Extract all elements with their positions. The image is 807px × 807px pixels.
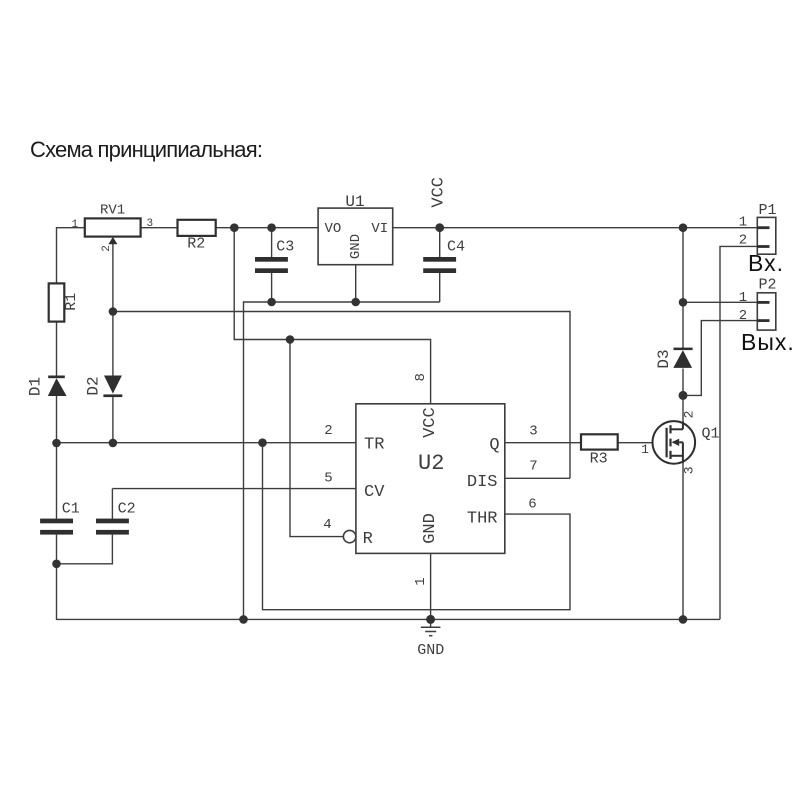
wire R1 bottom to D1 xyxy=(56,322,58,376)
node TR D2 xyxy=(109,439,118,448)
svg-text:P1: P1 xyxy=(759,202,777,219)
node wiper-DIS xyxy=(109,307,118,316)
wire VCC to D3 xyxy=(682,228,684,348)
svg-text:2: 2 xyxy=(324,423,332,439)
svg-text:P2: P2 xyxy=(759,276,777,293)
node C1 C2 bottom xyxy=(52,560,61,569)
wire U2 pin4 R loop xyxy=(290,340,343,537)
svg-text:1: 1 xyxy=(72,219,79,231)
svg-text:GND: GND xyxy=(348,234,364,259)
svg-text:C4: C4 xyxy=(447,239,465,256)
svg-text:GND: GND xyxy=(417,642,444,659)
node P2 pin1 xyxy=(679,298,688,307)
node C3 top xyxy=(267,223,276,232)
svg-text:D2: D2 xyxy=(85,376,103,395)
svg-text:R1: R1 xyxy=(63,293,80,311)
wire top rail left of RV1 xyxy=(57,228,85,284)
svg-text:1: 1 xyxy=(739,290,747,306)
node R2-right xyxy=(230,223,239,232)
node ground Q1 xyxy=(679,615,688,624)
svg-text:3: 3 xyxy=(147,218,154,230)
net label Вх. xyxy=(748,250,784,277)
U2 pin4 inversion bubble xyxy=(343,530,355,542)
svg-text:TR: TR xyxy=(364,436,384,455)
capacitor C1 xyxy=(40,519,73,535)
wire VCC branch down to U2 pin8 xyxy=(234,228,430,404)
node ground rail A xyxy=(239,615,248,624)
svg-text:5: 5 xyxy=(324,471,332,487)
svg-text:8: 8 xyxy=(413,373,429,381)
svg-text:C3: C3 xyxy=(276,239,294,256)
svg-text:CV: CV xyxy=(364,483,385,502)
svg-text:U2: U2 xyxy=(418,451,444,476)
svg-text:R: R xyxy=(363,530,373,549)
svg-text:VO: VO xyxy=(325,221,342,237)
wire gnd rail A xyxy=(244,302,440,619)
capacitor C2 xyxy=(96,519,129,535)
title xyxy=(30,137,262,163)
svg-text:4: 4 xyxy=(323,517,331,533)
diode D2 xyxy=(103,376,122,398)
svg-text:2: 2 xyxy=(682,411,697,419)
svg-text:2: 2 xyxy=(739,308,747,324)
regulator U1 xyxy=(318,208,393,265)
wire D2 bottom to TR node xyxy=(112,397,114,443)
wire C2 bottom link to C1 column xyxy=(57,535,113,564)
svg-text:Q1: Q1 xyxy=(702,426,720,443)
svg-text:1: 1 xyxy=(641,442,649,457)
wire U1 VI to P1 pin1 xyxy=(393,227,758,229)
svg-text:VCC: VCC xyxy=(429,177,448,208)
node TR THR branch xyxy=(258,438,267,447)
wire wiper node to DIS loop xyxy=(113,312,570,479)
resistor R2 xyxy=(178,220,216,236)
svg-text:6: 6 xyxy=(528,497,536,513)
svg-text:D3: D3 xyxy=(655,349,673,368)
net label Вых. xyxy=(741,329,795,356)
node C3 bottom xyxy=(267,298,276,307)
svg-text:VI: VI xyxy=(371,221,388,237)
node TR left xyxy=(52,439,61,448)
transistor Q1 xyxy=(653,421,696,464)
wire THR loop xyxy=(263,443,571,610)
wire C3 bottom xyxy=(271,273,273,302)
diode D3 xyxy=(673,348,692,368)
svg-text:Q: Q xyxy=(489,436,499,455)
wire RV1 wiper down to D2 xyxy=(112,243,114,376)
wire U2 pin1 to ground xyxy=(430,553,432,619)
wire R2 to U1 VO xyxy=(216,227,318,229)
svg-text:U1: U1 xyxy=(345,193,364,211)
diode D1 xyxy=(48,376,67,397)
svg-text:R3: R3 xyxy=(590,451,608,468)
wire P1 pin2 loop down right side xyxy=(720,246,757,619)
resistor R3 xyxy=(581,434,618,449)
wire Q pin to R3 xyxy=(505,442,581,444)
svg-text:7: 7 xyxy=(529,459,537,475)
svg-text:3: 3 xyxy=(529,424,537,440)
node D3 drain xyxy=(679,391,688,400)
svg-text:THR: THR xyxy=(467,509,498,528)
wire C1 bottom to ground rail corner xyxy=(57,535,721,620)
ground xyxy=(421,619,441,635)
node VCC xyxy=(435,223,444,232)
svg-text:2: 2 xyxy=(101,245,113,252)
node pin8/pin4 branch xyxy=(286,335,295,344)
node P1 branch xyxy=(679,223,688,232)
capacitor C3 xyxy=(255,257,288,273)
wire Q1 source to ground xyxy=(682,462,684,619)
wire CV rail xyxy=(112,488,356,490)
wire D3 to Q1 drain xyxy=(682,369,684,423)
wire C4 bottom xyxy=(439,273,441,302)
node ground U2 xyxy=(426,615,435,624)
svg-text:1: 1 xyxy=(413,577,429,585)
wire TR rail xyxy=(57,442,356,444)
wire C4 top xyxy=(439,228,441,257)
svg-text:DIS: DIS xyxy=(467,473,498,492)
wire DIS pin xyxy=(505,477,570,479)
resistor R1 xyxy=(49,283,65,321)
svg-text:GND: GND xyxy=(421,513,440,544)
wire CV corner down to C2 xyxy=(111,489,113,519)
capacitor C4 xyxy=(423,257,456,273)
wire P2 pin2 loop xyxy=(683,321,757,396)
timer U2 xyxy=(356,404,505,554)
svg-text:RV1: RV1 xyxy=(100,203,125,219)
svg-text:VCC: VCC xyxy=(421,407,440,438)
connector P2 xyxy=(757,293,776,330)
wire R3 to Q1 gate xyxy=(618,442,667,444)
wire RV1 to R2 xyxy=(141,227,178,229)
wire D1 to C1 top xyxy=(56,396,58,519)
svg-text:C1: C1 xyxy=(62,500,80,517)
svg-text:D1: D1 xyxy=(26,377,44,396)
svg-text:1: 1 xyxy=(739,215,747,231)
svg-text:C2: C2 xyxy=(118,500,136,517)
wire U1 GND pin xyxy=(355,265,357,302)
connector P1 xyxy=(757,217,776,254)
wire C3 top xyxy=(271,228,273,257)
wire P2 pin1 xyxy=(683,301,757,303)
svg-text:2: 2 xyxy=(739,233,747,249)
potentiometer RV1 xyxy=(85,218,141,244)
svg-text:3: 3 xyxy=(682,466,697,474)
node U1 GND xyxy=(351,298,360,307)
svg-text:R2: R2 xyxy=(187,236,205,253)
